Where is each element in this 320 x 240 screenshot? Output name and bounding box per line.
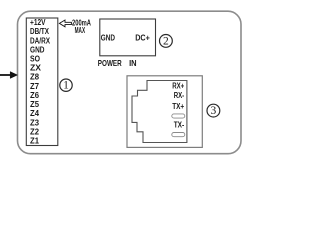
- svg-text:2: 2: [163, 35, 169, 47]
- svg-text:Z8: Z8: [30, 73, 40, 82]
- svg-text:GND: GND: [101, 33, 115, 43]
- svg-text:Z2: Z2: [30, 127, 40, 136]
- device outline: [18, 11, 242, 154]
- svg-text:DA/RX: DA/RX: [30, 36, 51, 45]
- ethernet box: [127, 76, 202, 148]
- svg-text:Z7: Z7: [30, 82, 40, 91]
- svg-text:TX-: TX-: [174, 121, 185, 130]
- svg-text:Z6: Z6: [30, 91, 40, 100]
- svg-text:GND: GND: [30, 45, 45, 54]
- svg-text:POWER: POWER: [98, 58, 122, 68]
- callout 2: [160, 35, 173, 48]
- svg-text:1: 1: [63, 80, 69, 92]
- current limit arrow: [59, 20, 71, 27]
- power terminal block J2: [100, 19, 156, 56]
- input arrow: [0, 72, 18, 79]
- callout 3: [207, 104, 220, 117]
- svg-text:DB/TX: DB/TX: [30, 27, 50, 36]
- svg-text:Z1: Z1: [30, 137, 40, 146]
- svg-text:TX+: TX+: [172, 102, 184, 111]
- svg-text:IN: IN: [129, 58, 137, 68]
- svg-text:MAX: MAX: [75, 26, 86, 35]
- callout 1: [60, 79, 72, 91]
- svg-text:+12V: +12V: [30, 18, 46, 27]
- svg-text:RX+: RX+: [172, 81, 184, 90]
- svg-text:SO: SO: [30, 55, 40, 64]
- RJ45 jack J3: [132, 81, 187, 143]
- svg-text:RX-: RX-: [174, 91, 185, 100]
- svg-text:3: 3: [211, 105, 217, 117]
- svg-text:ZX: ZX: [30, 64, 42, 73]
- svg-text:DC+: DC+: [135, 33, 150, 43]
- svg-text:Z3: Z3: [30, 118, 40, 127]
- terminal block J1: [26, 18, 58, 146]
- unused contact: [172, 114, 185, 118]
- svg-text:Z4: Z4: [30, 109, 40, 118]
- unused contact: [172, 133, 185, 137]
- svg-text:Z5: Z5: [30, 100, 40, 109]
